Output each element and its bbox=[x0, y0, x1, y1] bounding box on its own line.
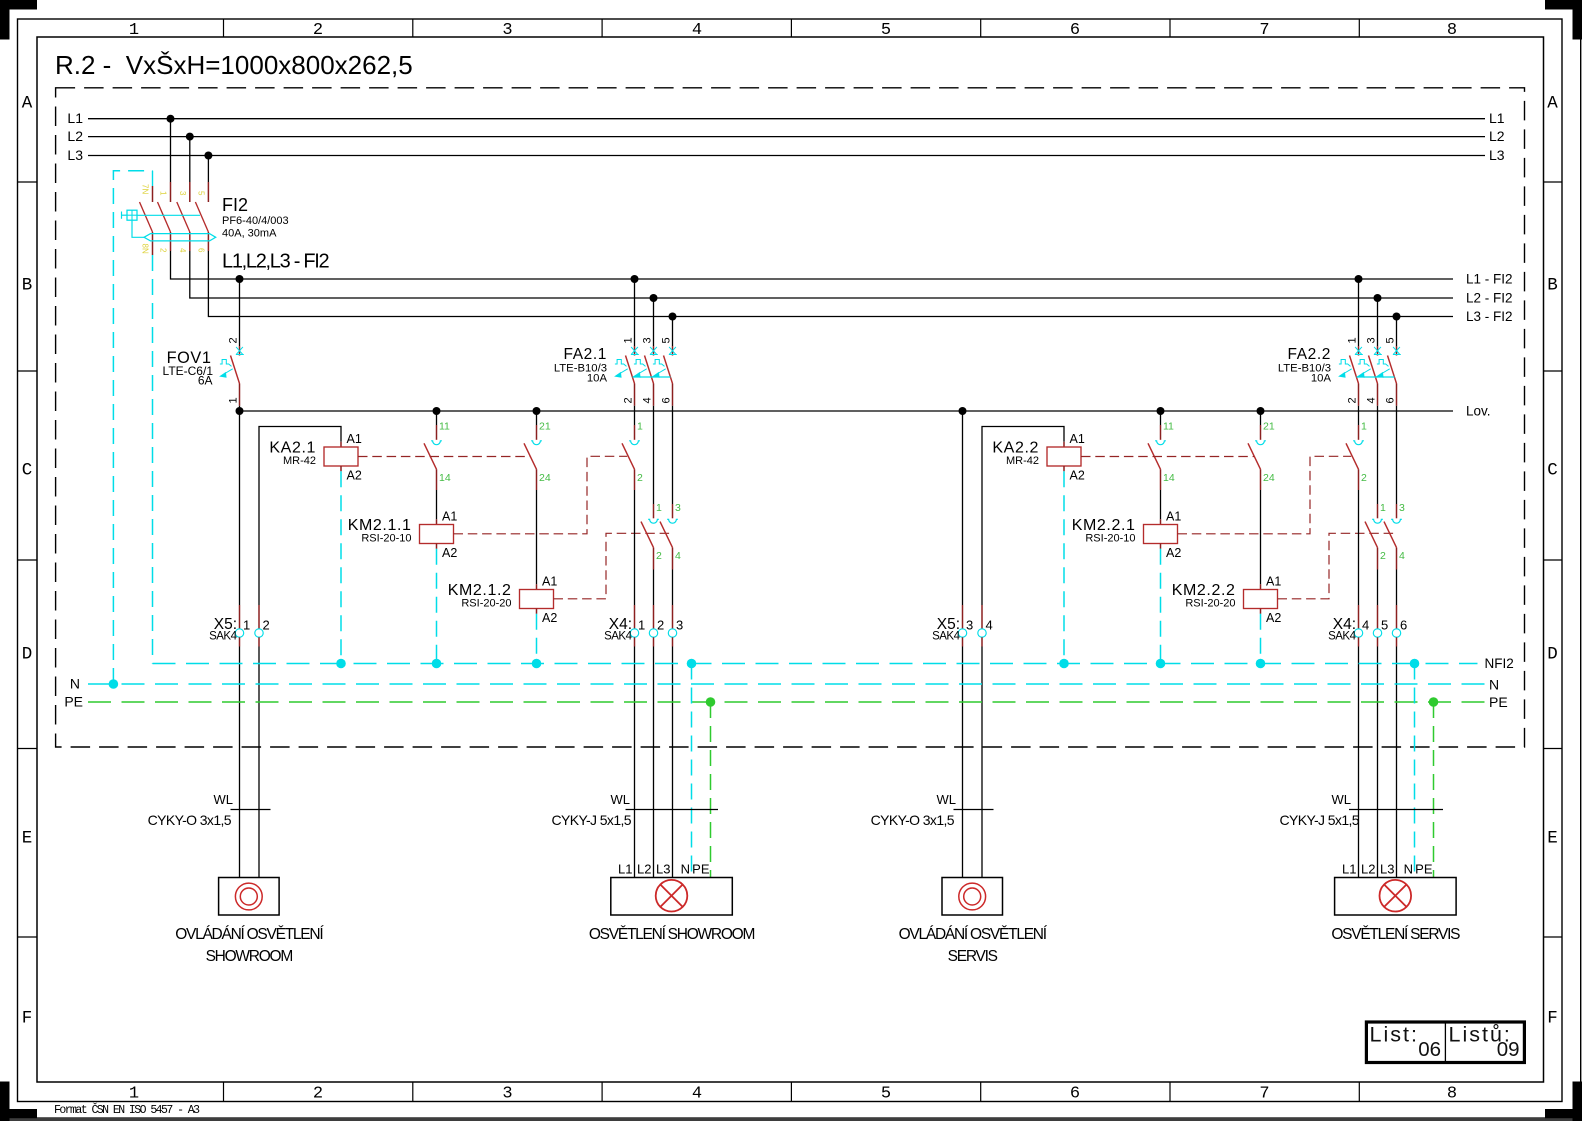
svg-text:A2: A2 bbox=[1166, 546, 1181, 560]
terminal X5:4 bbox=[978, 629, 986, 637]
svg-text:L1: L1 bbox=[618, 862, 632, 877]
svg-text:1: 1 bbox=[1361, 421, 1367, 433]
svg-text:6: 6 bbox=[661, 397, 673, 403]
wire FA pole3 to KM2.2.2 contact bbox=[1396, 406, 1398, 504]
svg-text:1: 1 bbox=[228, 397, 240, 403]
svg-text:5: 5 bbox=[196, 191, 205, 196]
KA2.2 control link dashed bbox=[1081, 456, 1254, 458]
breaker FA2.1 pole 1 terminal cross bbox=[631, 347, 639, 355]
svg-text:L3 - FI2: L3 - FI2 bbox=[1466, 309, 1513, 324]
svg-text:Lov.: Lov. bbox=[1466, 404, 1491, 419]
svg-text:3: 3 bbox=[1366, 337, 1378, 343]
wire contact 14 to KM2.2.1 A1 bbox=[1160, 469, 1162, 490]
wire FOV1 to Lov bus bbox=[239, 406, 241, 411]
svg-text:24: 24 bbox=[539, 472, 551, 484]
cable WL marker bbox=[231, 809, 271, 811]
svg-text:6: 6 bbox=[1385, 397, 1397, 403]
junction L1 to FI2 bbox=[167, 115, 175, 123]
svg-text:L1: L1 bbox=[1342, 862, 1356, 877]
contactor coil KM2.1.2 coil body bbox=[520, 590, 554, 609]
breaker FOV1 top stub bbox=[239, 346, 241, 356]
svg-text:4: 4 bbox=[642, 397, 654, 403]
svg-text:1: 1 bbox=[243, 618, 250, 633]
KA2.1 contact 21-24 moving blade bbox=[524, 443, 537, 469]
wire X5:1 to switch bbox=[239, 637, 241, 646]
wire bus to breaker FA2.2 pin 3 bbox=[1377, 298, 1379, 346]
svg-text:21: 21 bbox=[1263, 421, 1275, 433]
KA2.1 A2 stub bbox=[340, 466, 342, 471]
wire KM2.2.2 A2 to NFI2 dashed bbox=[1260, 614, 1262, 664]
svg-text:A1: A1 bbox=[542, 575, 557, 589]
svg-text:2: 2 bbox=[1361, 472, 1367, 484]
svg-text:1: 1 bbox=[638, 618, 645, 633]
junction KM2.1.2 A2 on NFI2 bbox=[532, 659, 542, 669]
KM2.1.2 main contact 1-2 moving blade bbox=[641, 522, 654, 548]
net PE bus dashed bbox=[88, 701, 1485, 703]
svg-text:2: 2 bbox=[159, 248, 168, 253]
svg-text:A2: A2 bbox=[442, 546, 457, 560]
svg-text:14: 14 bbox=[439, 472, 451, 484]
breaker FOV1 bottom stub bbox=[239, 384, 241, 406]
svg-text:FA2.2: FA2.2 bbox=[1288, 346, 1332, 363]
KM2.2.2 main contact 3-4 fixed contact bbox=[1391, 519, 1402, 523]
breaker FA2.1 pole 3 bottom stub bbox=[672, 384, 674, 406]
KM2.2.2 control link dashed bbox=[1278, 533, 1397, 599]
junction breaker FA2.1 pole 1 tap bbox=[631, 275, 639, 283]
RCD FI2 contact blades bbox=[140, 202, 153, 232]
svg-text:3: 3 bbox=[502, 1085, 512, 1104]
junction Lov to KA2.1 circuit bbox=[236, 407, 244, 415]
svg-text:40A, 30mA: 40A, 30mA bbox=[222, 228, 277, 240]
net N bus dashed bbox=[88, 683, 1485, 685]
svg-text:RSI-20-20: RSI-20-20 bbox=[1185, 598, 1235, 610]
KA2.1 contact 11-14 moving blade bbox=[424, 443, 437, 469]
svg-text:6: 6 bbox=[196, 248, 205, 253]
svg-text:L1: L1 bbox=[1489, 110, 1505, 126]
paper edge line right bbox=[1580, 0, 1582, 1121]
wire X4:3 to lamp bbox=[672, 637, 674, 646]
svg-text:WL: WL bbox=[937, 792, 957, 807]
KA2.2 contact 21-24 moving blade bbox=[1248, 443, 1261, 469]
svg-text:8: 8 bbox=[1447, 1085, 1457, 1104]
wire FA pole1 to KM2.2.1 contact bbox=[1358, 406, 1360, 425]
svg-text:RSI-20-10: RSI-20-10 bbox=[1085, 533, 1135, 545]
svg-text:3: 3 bbox=[966, 618, 973, 633]
wire contact 14 to KM2.1.1 A1 bbox=[436, 469, 438, 490]
terminal X4:5 bbox=[1373, 629, 1381, 637]
junction PE showroom drop bbox=[706, 697, 716, 707]
wire X4:2 to lamp bbox=[653, 637, 655, 646]
contactor coil KM2.2.2 coil body bbox=[1244, 590, 1278, 609]
svg-text:1: 1 bbox=[656, 502, 662, 514]
junction FOV1 tap bbox=[236, 275, 244, 283]
wire X5:2 to switch bbox=[258, 637, 260, 646]
wire contact 24 to KM2.2.2 A1 bbox=[1260, 469, 1262, 490]
wire to contact 11 bbox=[1160, 411, 1162, 425]
net L2 bus bbox=[88, 136, 1485, 138]
wire KM2.1.2 contact to X4:2 bbox=[653, 548, 655, 570]
breaker FA2.1 pole 1 trip release symbol bbox=[614, 360, 628, 378]
wire KA2.1 branch bbox=[259, 427, 341, 606]
wire PE to servis lamp dashed bbox=[1433, 702, 1435, 878]
svg-text:L1,L2,L3 - FI2: L1,L2,L3 - FI2 bbox=[222, 251, 329, 273]
wire PE to showroom lamp dashed bbox=[710, 702, 712, 878]
svg-text:L2: L2 bbox=[637, 862, 651, 877]
svg-text:3: 3 bbox=[1399, 502, 1405, 514]
svg-text:A2: A2 bbox=[1266, 611, 1281, 625]
junction PE servis drop bbox=[1429, 697, 1439, 707]
svg-text:PE: PE bbox=[1415, 862, 1433, 877]
svg-text:N: N bbox=[1489, 677, 1499, 693]
svg-text:1: 1 bbox=[129, 21, 139, 40]
junction NFI2 servis drop bbox=[1410, 659, 1420, 669]
svg-text:4: 4 bbox=[692, 1085, 702, 1104]
wire KM2.1.1 contact to X4:1 bbox=[634, 469, 636, 490]
svg-text:3: 3 bbox=[676, 618, 683, 633]
wire to contact 21 bbox=[536, 411, 538, 425]
KM2.1.2 main contact 1-2 fixed contact bbox=[648, 519, 659, 523]
svg-text:Format ČSN EN ISO 5457 - A3: Format ČSN EN ISO 5457 - A3 bbox=[54, 1103, 200, 1117]
svg-text:L2: L2 bbox=[1361, 862, 1375, 877]
wire X4:6 to lamp bbox=[1396, 637, 1398, 646]
svg-text:6: 6 bbox=[1070, 1085, 1080, 1104]
control switch box SHOWROOM bbox=[219, 878, 280, 916]
svg-text:4: 4 bbox=[1399, 550, 1405, 562]
svg-text:CYKY-O 3x1,5: CYKY-O 3x1,5 bbox=[871, 812, 955, 828]
net L1-FI2 bus bbox=[171, 251, 1454, 279]
wire bus to breaker FA2.2 pin 5 bbox=[1396, 317, 1398, 347]
svg-text:09: 09 bbox=[1497, 1038, 1520, 1061]
cable WL marker bbox=[954, 809, 994, 811]
net Lov. bus bbox=[240, 410, 1454, 412]
svg-text:KM2.1.1: KM2.1.1 bbox=[348, 517, 412, 534]
svg-text:21: 21 bbox=[539, 421, 551, 433]
KM2.2.1 main contact 1-2 moving blade bbox=[1346, 443, 1359, 469]
svg-text:4: 4 bbox=[986, 618, 993, 633]
wire KA2.2 branch bbox=[982, 427, 1064, 606]
column tick lines bottom bbox=[223, 1082, 225, 1101]
svg-text:MR-42: MR-42 bbox=[283, 455, 316, 467]
svg-text:2: 2 bbox=[656, 550, 662, 562]
breaker FA2.2 pole 3 contact blade bbox=[1388, 356, 1397, 384]
svg-text:2: 2 bbox=[637, 472, 643, 484]
svg-text:1: 1 bbox=[1347, 337, 1359, 343]
KM2.1.2 control link dashed bbox=[554, 533, 673, 599]
svg-text:F: F bbox=[22, 1009, 33, 1029]
svg-text:KA2.2: KA2.2 bbox=[992, 440, 1039, 457]
KA2.2 contact 11-14 moving blade bbox=[1148, 443, 1161, 469]
row tick lines right bbox=[1544, 181, 1563, 183]
svg-text:A1: A1 bbox=[347, 432, 362, 446]
lamp symbol bbox=[1380, 880, 1412, 912]
RCD FI2 linkage to bar bbox=[132, 220, 144, 237]
svg-text:E: E bbox=[22, 829, 33, 849]
junction KA2.2 A2 on NFI2 bbox=[1059, 659, 1069, 669]
lamp terminal labels bbox=[1342, 862, 1433, 877]
net L1 bus bbox=[88, 118, 1485, 120]
wire Lov to X5:3 bbox=[962, 411, 964, 605]
svg-text:L3: L3 bbox=[656, 862, 670, 877]
junction N feed to FI2 bbox=[109, 679, 119, 689]
svg-text:3: 3 bbox=[178, 191, 187, 196]
svg-text:PE: PE bbox=[64, 694, 83, 710]
svg-text:1: 1 bbox=[159, 191, 168, 196]
contactor coil KM2.2.1 coil body bbox=[1144, 525, 1178, 544]
svg-text:C: C bbox=[22, 461, 33, 481]
svg-text:L2: L2 bbox=[1489, 128, 1505, 144]
net L2-FI2 bus bbox=[190, 251, 1453, 298]
RCD FI2 N pole top stub bbox=[152, 171, 154, 186]
svg-text:A1: A1 bbox=[1070, 432, 1085, 446]
svg-text:KA2.1: KA2.1 bbox=[269, 440, 316, 457]
svg-text:6: 6 bbox=[1070, 21, 1080, 40]
svg-text:8: 8 bbox=[1447, 21, 1457, 40]
contactor coil KM2.1.1 coil body bbox=[420, 525, 454, 544]
svg-text:5: 5 bbox=[1381, 618, 1388, 633]
wire Lov to X5:1 bbox=[239, 411, 241, 605]
svg-text:FI2: FI2 bbox=[222, 195, 248, 215]
svg-text:C: C bbox=[1547, 461, 1558, 481]
wire KM2.1.1 A2 to NFI2 dashed bbox=[436, 549, 438, 664]
svg-text:N: N bbox=[1404, 862, 1413, 877]
wire L1 to FI2 pin 1 bbox=[170, 119, 172, 182]
wire NFI2 to servis lamp N dashed bbox=[1414, 664, 1416, 878]
terminal X5:3 bbox=[958, 629, 966, 637]
svg-text:OSVĚTLENÍ SERVIS: OSVĚTLENÍ SERVIS bbox=[1331, 926, 1460, 943]
breaker FA2.2 pole 2 top stub bbox=[1377, 346, 1379, 356]
wire KA2.1 A1 stub bbox=[340, 442, 342, 447]
KM2.1.1 main contact 1-2 fixed contact bbox=[629, 441, 640, 445]
svg-text:2: 2 bbox=[623, 397, 635, 403]
corner mark bottom-left bbox=[0, 1082, 10, 1121]
svg-text:1: 1 bbox=[129, 1085, 139, 1104]
control switch symbol bbox=[959, 883, 986, 910]
terminal X4:3 bbox=[668, 629, 676, 637]
KA2.1 contact 21-24 fixed contact bbox=[531, 441, 542, 445]
wire KM2.2.2 contact to X4:5 bbox=[1377, 548, 1379, 570]
net NFI2 bus dashed bbox=[153, 663, 1478, 665]
terminal X5:2 bbox=[255, 629, 263, 637]
svg-text:A1: A1 bbox=[1166, 510, 1181, 524]
svg-text:1: 1 bbox=[637, 421, 643, 433]
breaker FA2.2 pole 2 contact blade bbox=[1369, 356, 1378, 384]
svg-text:CYKY-J 5x1,5: CYKY-J 5x1,5 bbox=[552, 812, 632, 828]
breaker FA2.2 mechanical link bbox=[1357, 376, 1395, 378]
wire X4:1 to lamp bbox=[634, 637, 636, 646]
svg-text:WL: WL bbox=[1332, 792, 1352, 807]
wire NFI2 to showroom lamp N dashed bbox=[691, 664, 693, 878]
svg-text:L2 - FI2: L2 - FI2 bbox=[1466, 291, 1513, 306]
junction NFI2 showroom drop bbox=[687, 659, 697, 669]
svg-text:11: 11 bbox=[439, 421, 450, 433]
svg-text:L2: L2 bbox=[67, 128, 83, 144]
corner mark top-left bbox=[0, 0, 37, 10]
breaker FA2.2 pole 1 trip release symbol bbox=[1338, 360, 1352, 378]
svg-text:SAK4: SAK4 bbox=[604, 631, 633, 643]
KA2.2 contact 21-24 fixed contact bbox=[1255, 441, 1266, 445]
svg-text:List:: List: bbox=[1370, 1023, 1419, 1047]
svg-text:MR-42: MR-42 bbox=[1006, 455, 1039, 467]
KA2.2 contact 11-14 fixed contact bbox=[1155, 441, 1166, 445]
svg-text:06: 06 bbox=[1418, 1038, 1441, 1061]
wire KA2.1 A2 to NFI2 dashed bbox=[340, 471, 342, 663]
wire KA2.2 A1 stub bbox=[1063, 442, 1065, 447]
svg-text:4: 4 bbox=[178, 248, 187, 253]
svg-text:SHOWROOM: SHOWROOM bbox=[206, 948, 293, 965]
bottom grey strip bbox=[0, 1117, 1582, 1121]
svg-text:2: 2 bbox=[228, 337, 240, 343]
KM2.1.2 main contact 3-4 fixed contact bbox=[667, 519, 678, 523]
breaker FA2.1 pole 2 bottom stub bbox=[653, 384, 655, 406]
svg-text:4: 4 bbox=[1366, 397, 1378, 403]
KM2.1.2 A2 stub bbox=[536, 609, 538, 614]
svg-text:L3: L3 bbox=[67, 147, 83, 163]
svg-text:2: 2 bbox=[313, 1085, 323, 1104]
svg-text:8N: 8N bbox=[141, 244, 150, 254]
relay coil KA2.1 coil body bbox=[324, 447, 358, 466]
corner mark top-right bbox=[1545, 0, 1582, 10]
lamp terminal labels bbox=[618, 862, 710, 877]
KM2.2.1 A2 stub bbox=[1160, 544, 1162, 549]
svg-text:WL: WL bbox=[611, 792, 631, 807]
breaker FA2.2 pole 3 bottom stub bbox=[1396, 384, 1398, 406]
breaker FA2.1 mechanical link bbox=[633, 376, 671, 378]
svg-text:1: 1 bbox=[623, 337, 635, 343]
breaker FA2.2 pole 1 terminal cross bbox=[1355, 347, 1363, 355]
wire FI2 N pole to NFI2 bbox=[152, 251, 154, 255]
svg-text:5: 5 bbox=[881, 1085, 891, 1104]
svg-text:L1: L1 bbox=[67, 110, 83, 126]
KM2.1.1 A2 stub bbox=[436, 544, 438, 549]
svg-text:7N: 7N bbox=[141, 184, 150, 194]
wire KM2.2.1 contact to X4:4 bbox=[1358, 469, 1360, 490]
RCD FI2 test wire bbox=[137, 214, 200, 216]
svg-text:7: 7 bbox=[1259, 21, 1269, 40]
net L3-FI2 bus bbox=[208, 251, 1453, 317]
junction L3 to FI2 bbox=[204, 152, 212, 160]
column tick lines top bbox=[223, 19, 225, 37]
breaker FA2.2 pole 1 bottom stub bbox=[1358, 384, 1360, 406]
junction breaker FA2.2 pole 3 tap bbox=[1393, 313, 1401, 321]
breaker FOV1 terminal cross bbox=[236, 347, 244, 355]
svg-text:7: 7 bbox=[1259, 1085, 1269, 1104]
junction breaker FA2.2 pole 1 tap bbox=[1355, 275, 1363, 283]
lamp box OSVĚTLENÍ SERVIS bbox=[1335, 878, 1457, 916]
breaker FA2.1 pole 3 contact blade bbox=[664, 356, 673, 384]
junction KA2.1 A2 on NFI2 bbox=[336, 659, 346, 669]
junction Lov to KA2.2 contact 21 bbox=[1257, 407, 1265, 415]
svg-text:A2: A2 bbox=[1070, 469, 1085, 483]
svg-text:10A: 10A bbox=[587, 373, 608, 385]
junction breaker FA2.1 pole 3 tap bbox=[669, 313, 677, 321]
breaker FA2.1 pole 2 trip release symbol bbox=[633, 360, 647, 378]
relay coil KA2.2 coil body bbox=[1047, 447, 1081, 466]
breaker FA2.2 pole 3 terminal cross bbox=[1393, 347, 1401, 355]
svg-text:N: N bbox=[70, 676, 80, 692]
cable WL marker bbox=[626, 809, 719, 811]
svg-text:D: D bbox=[1547, 645, 1558, 665]
lamp box OSVĚTLENÍ SHOWROOM bbox=[611, 878, 733, 916]
svg-text:WL: WL bbox=[214, 792, 234, 807]
svg-text:3: 3 bbox=[675, 502, 681, 514]
terminal X4:1 bbox=[630, 629, 638, 637]
svg-text:R.2 - VxŠxH=1000x800x262,5: R.2 - VxŠxH=1000x800x262,5 bbox=[55, 50, 413, 80]
RCD FI2 pole top stubs bbox=[170, 182, 172, 202]
svg-text:PE: PE bbox=[692, 862, 710, 877]
svg-text:SAK4: SAK4 bbox=[209, 631, 238, 643]
lamp symbol bbox=[656, 880, 688, 912]
junction breaker FA2.2 pole 2 tap bbox=[1374, 294, 1382, 302]
wire X5:3 to switch bbox=[962, 637, 964, 646]
breaker FA2.2 pole 2 terminal cross bbox=[1374, 347, 1382, 355]
KM2.1.1 main contact 1-2 moving blade bbox=[622, 443, 635, 469]
svg-text:B: B bbox=[22, 276, 33, 296]
row tick lines left bbox=[18, 181, 38, 183]
wire bus to breaker FA2.1 pin 1 bbox=[634, 279, 636, 346]
wire bus to breaker FA2.1 pin 3 bbox=[653, 298, 655, 346]
RCD FI2 mechanical link bar bbox=[144, 234, 216, 241]
svg-text:A: A bbox=[1547, 94, 1558, 114]
breaker FA2.1 pole 1 top stub bbox=[634, 346, 636, 356]
junction Lov to KA2.1 contact 11 bbox=[433, 407, 441, 415]
KM2.2.1 main contact 1-2 fixed contact bbox=[1353, 441, 1364, 445]
svg-text:L3: L3 bbox=[1380, 862, 1394, 877]
svg-text:2: 2 bbox=[1347, 397, 1359, 403]
KM2.2.2 main contact 1-2 fixed contact bbox=[1372, 519, 1383, 523]
svg-text:PE: PE bbox=[1489, 694, 1508, 710]
breaker FA2.1 pole 2 contact blade bbox=[645, 356, 654, 384]
svg-text:5: 5 bbox=[881, 21, 891, 40]
wire bus to breaker FA2.1 pin 5 bbox=[672, 317, 674, 347]
breaker FA2.1 pole 3 trip release symbol bbox=[652, 360, 666, 378]
svg-text:OVLÁDÁNÍ OSVĚTLENÍ: OVLÁDÁNÍ OSVĚTLENÍ bbox=[899, 926, 1048, 943]
RCD FI2 pole bottom stubs bbox=[152, 232, 154, 251]
wire FA pole1 to KM2.1.1 contact bbox=[634, 406, 636, 425]
wire KA2.2 A2 to NFI2 dashed bbox=[1063, 471, 1065, 663]
svg-text:5: 5 bbox=[661, 337, 673, 343]
svg-text:5: 5 bbox=[1385, 337, 1397, 343]
breaker FA2.2 pole 3 top stub bbox=[1396, 346, 1398, 356]
svg-text:A: A bbox=[22, 94, 33, 114]
svg-text:3: 3 bbox=[502, 21, 512, 40]
breaker FA2.1 pole 2 terminal cross bbox=[650, 347, 658, 355]
junction KM2.1.1 A2 on NFI2 bbox=[432, 659, 442, 669]
KA2.1 control link dashed bbox=[358, 456, 530, 458]
KM2.1.1 control link dashed bbox=[454, 456, 628, 534]
wire KM2.1.2 A2 to NFI2 dashed bbox=[536, 614, 538, 664]
breaker FA2.2 pole 2 trip release symbol bbox=[1357, 360, 1371, 378]
svg-text:A1: A1 bbox=[442, 510, 457, 524]
svg-text:KM2.2.1: KM2.2.1 bbox=[1072, 517, 1136, 534]
KM2.2.2 A2 stub bbox=[1260, 609, 1262, 614]
breaker FA2.2 pole 1 top stub bbox=[1358, 346, 1360, 356]
svg-text:RSI-20-10: RSI-20-10 bbox=[361, 533, 411, 545]
junction breaker FA2.1 pole 2 tap bbox=[650, 294, 658, 302]
KM2.1.2 main contact 3-4 moving blade bbox=[660, 522, 673, 548]
title block divider bbox=[1444, 1022, 1446, 1063]
cabinet R.2 dashed outline bbox=[56, 88, 1525, 747]
junction Lov to KA2.2 circuit bbox=[959, 407, 967, 415]
wire X5:4 to switch bbox=[981, 637, 983, 646]
KM2.2.2 main contact 1-2 moving blade bbox=[1365, 522, 1378, 548]
svg-text:NFI2: NFI2 bbox=[1485, 656, 1514, 671]
RCD FI2 N feed dashed bbox=[113, 171, 152, 684]
control switch box SERVIS bbox=[942, 878, 1003, 916]
svg-text:OVLÁDÁNÍ OSVĚTLENÍ: OVLÁDÁNÍ OSVĚTLENÍ bbox=[175, 926, 324, 943]
KA2.2 A2 stub bbox=[1063, 466, 1065, 471]
net L3 bus bbox=[88, 155, 1485, 157]
svg-text:KM2.1.2: KM2.1.2 bbox=[448, 582, 512, 599]
